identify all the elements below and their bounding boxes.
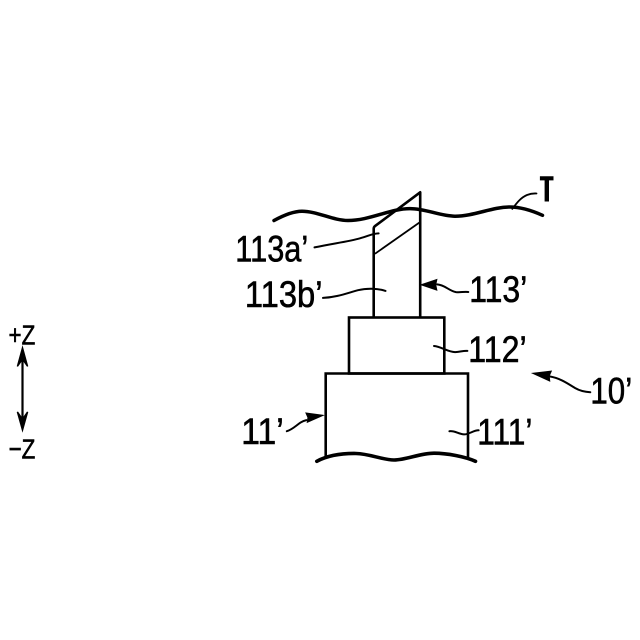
svg-text:113’: 113’: [469, 270, 527, 311]
svg-text:11’: 11’: [241, 412, 283, 453]
arrowhead 113': [421, 280, 436, 290]
svg-text:112’: 112’: [468, 330, 526, 371]
break wavy line bottom of 111': [317, 453, 476, 461]
label 112': [468, 330, 526, 371]
label 113b': [245, 274, 323, 315]
svg-text:+Z: +Z: [9, 320, 36, 351]
svg-text:113b’: 113b’: [245, 274, 323, 315]
svg-text:−Z: −Z: [9, 434, 36, 465]
label T: [540, 176, 554, 201]
block 111': [326, 374, 468, 459]
label 113a': [235, 229, 308, 270]
leader 113a': [315, 233, 379, 247]
leader 11': [287, 420, 307, 431]
svg-text:111’: 111’: [477, 412, 532, 453]
arrowhead 11': [306, 411, 323, 422]
arrowhead 10': [532, 368, 551, 380]
label 11': [241, 412, 283, 453]
leader 111': [449, 430, 478, 434]
leader 113b': [323, 289, 386, 298]
svg-text:10’: 10’: [590, 371, 632, 412]
label +Z: [9, 320, 36, 351]
label 113': [469, 270, 527, 311]
leader 112': [434, 346, 467, 352]
label 111': [477, 412, 532, 453]
label -Z: [9, 434, 36, 465]
needle 113' bevel heel line: [375, 223, 419, 254]
block 112': [349, 318, 444, 374]
needle 113' right edge and bevel top edge: [374, 192, 421, 317]
tissue wavy line T: [274, 207, 543, 221]
leader T: [512, 193, 536, 208]
leader 113': [437, 284, 468, 292]
axis double arrow Z: [17, 348, 27, 430]
svg-text:113a’: 113a’: [235, 229, 308, 270]
label 10': [590, 371, 632, 412]
leader 10': [550, 376, 591, 392]
